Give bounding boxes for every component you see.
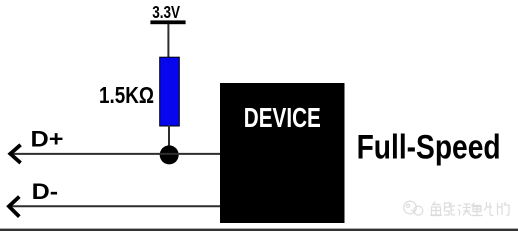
power rail bar (3.3V supply symbol) [150, 20, 185, 24]
junction dot (node: D+ / pull-up) [160, 145, 179, 164]
svg-text:D+: D+ [31, 126, 64, 151]
svg-text:1.5KΩ: 1.5KΩ [99, 82, 154, 108]
watermark text "yu ying tan dan pian ji" [430, 202, 509, 216]
svg-text:3.3V: 3.3V [152, 2, 180, 22]
svg-text:DEVICE: DEVICE [244, 102, 321, 133]
svg-text:D-: D- [32, 179, 58, 204]
D- arrowhead [9, 197, 19, 217]
svg-text:Full-Speed: Full-Speed [357, 129, 501, 167]
wire: power bar to resistor top [167, 24, 169, 58]
D- wire [9, 205, 220, 207]
watermark logo (osprey badge) [404, 201, 423, 215]
D+ arrowhead [10, 145, 20, 163]
wire: resistor bottom to junction [168, 125, 170, 148]
D+ wire [11, 153, 221, 155]
DEVICE box U1 [220, 83, 345, 223]
bottom border line [0, 229, 518, 231]
resistor R1 (1.5K ohm pull-up, blue body) [160, 57, 180, 126]
